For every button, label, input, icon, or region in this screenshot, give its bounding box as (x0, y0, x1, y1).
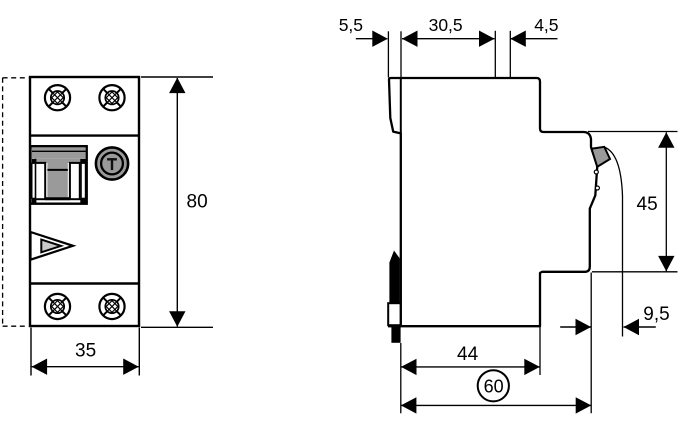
circle label 60 (478, 370, 509, 401)
body face edge behind lip (400, 78, 402, 135)
dimension 4,5 (510, 38, 557, 40)
svg-text:9,5: 9,5 (643, 304, 669, 325)
marking triangle (31, 232, 74, 260)
svg-text:44: 44 (457, 344, 479, 365)
side profile outline (389, 78, 597, 326)
dashed projection outline (3, 78, 29, 326)
svg-text:5,5: 5,5 (339, 15, 363, 35)
DIN rail clip foot (391, 325, 400, 343)
dimension 44 (401, 273, 591, 414)
dimension 35 (31, 328, 139, 376)
inner triangle (41, 240, 61, 253)
dimension 45 (588, 132, 678, 272)
svg-text:45: 45 (637, 194, 658, 215)
dimension 5,5 (356, 38, 388, 40)
toggle switch (31, 146, 87, 204)
screw terminal top-left (45, 85, 70, 110)
svg-text:4,5: 4,5 (534, 15, 558, 35)
screw terminal bottom-left (45, 294, 70, 319)
top extension lines (388, 31, 510, 78)
bottom edge segment under clip (388, 325, 401, 327)
terminal outer curve (604, 147, 623, 337)
svg-text:35: 35 (75, 341, 96, 362)
svg-text:60: 60 (484, 377, 504, 397)
terminal clamp (592, 147, 611, 167)
divider line lower (30, 282, 139, 284)
screw terminal top-right (99, 85, 124, 110)
screw terminal bottom-right (99, 294, 124, 319)
DIN rail clip slider (388, 303, 400, 325)
svg-text:80: 80 (187, 192, 208, 213)
dimension 30,5 (402, 38, 495, 40)
dimension 60 (401, 404, 591, 406)
dimension 80 (141, 77, 213, 327)
DIN rail clip spring (389, 251, 399, 304)
front body outline (30, 77, 139, 326)
svg-text:30,5: 30,5 (429, 15, 463, 35)
divider line upper (30, 134, 139, 136)
dimension 9,5 (560, 326, 656, 328)
terminal screw hole lower (595, 186, 599, 190)
test button T (96, 147, 128, 179)
terminal screw hole upper (594, 170, 598, 174)
